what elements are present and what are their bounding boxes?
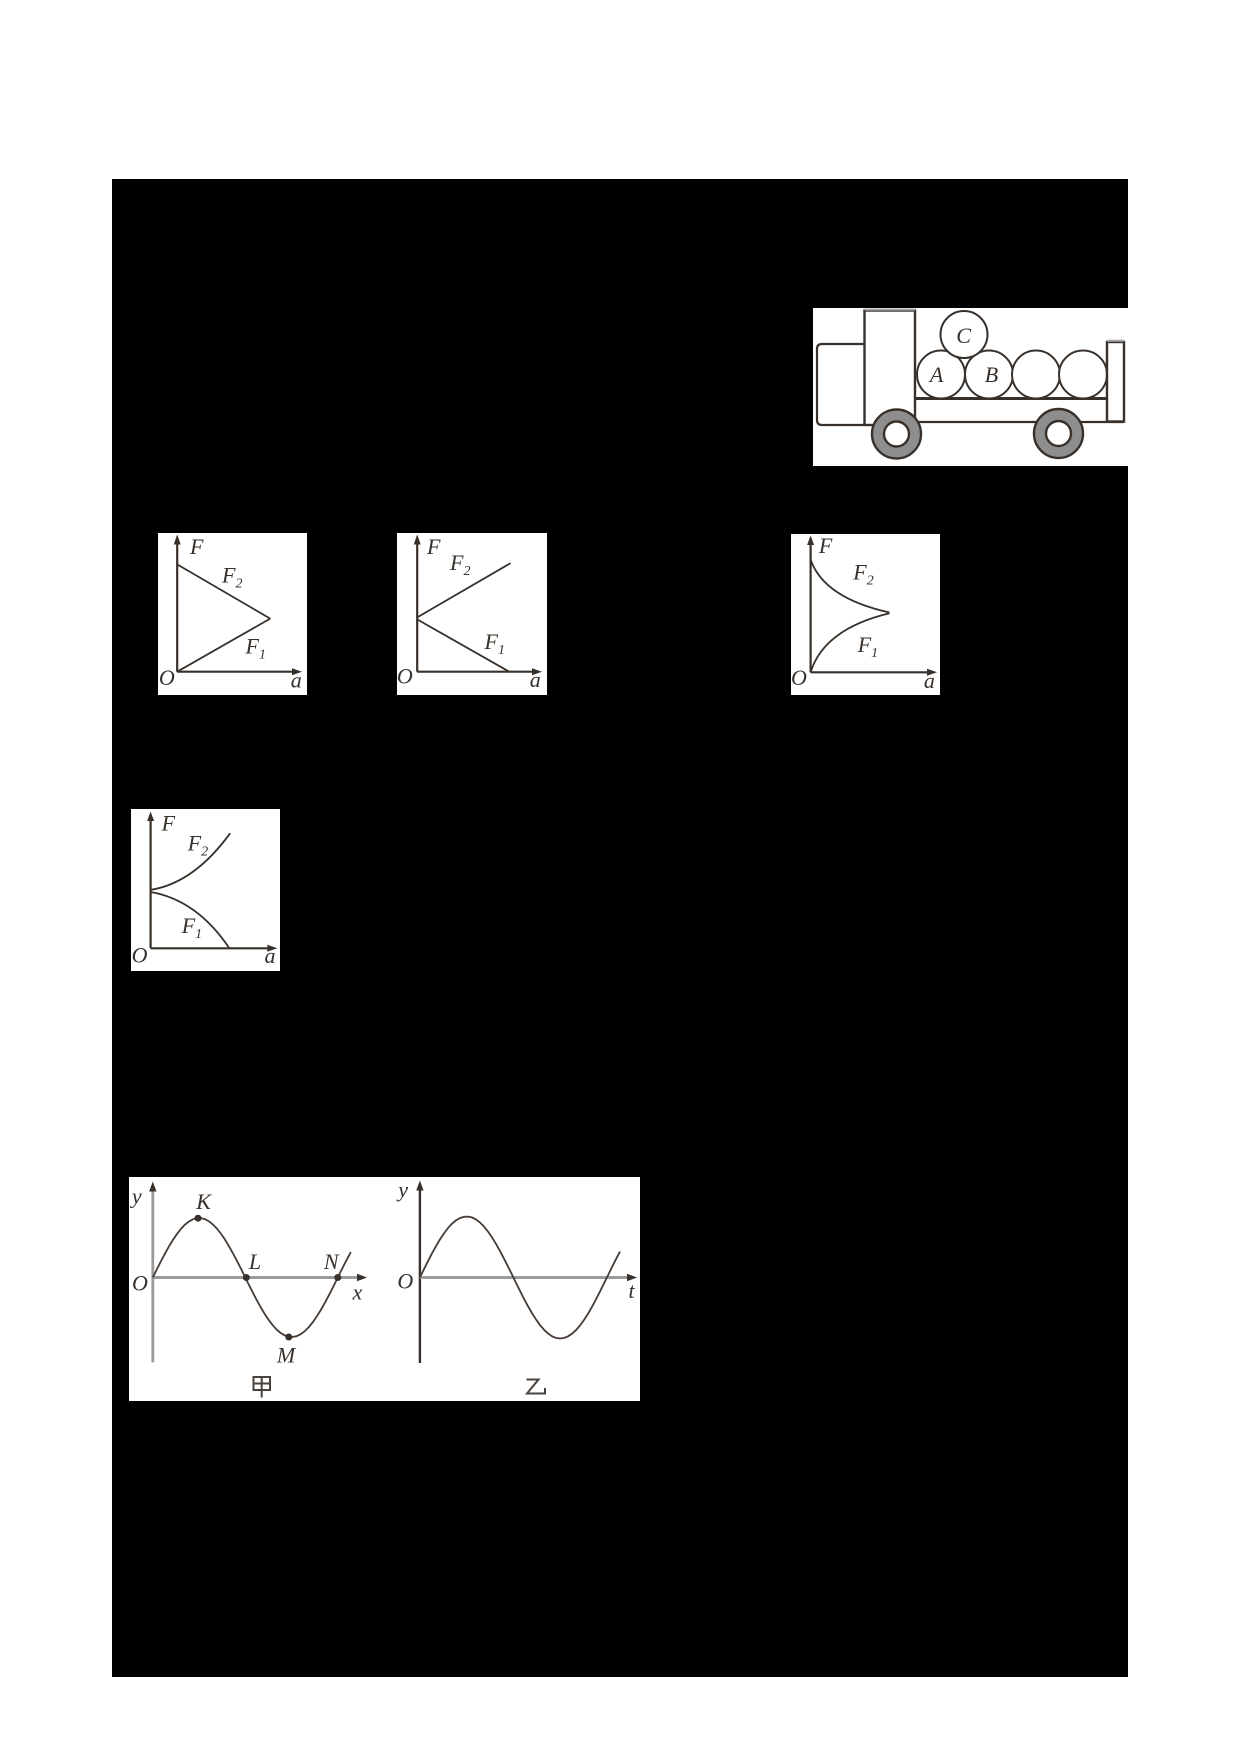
svg-text:K: K — [195, 1189, 212, 1214]
yi x axis (gray) — [420, 1276, 630, 1279]
svg-text:C: C — [956, 323, 971, 348]
jia sine wave — [153, 1218, 351, 1337]
page black body block — [112, 179, 1128, 1677]
svg-text:F1: F1 — [181, 913, 202, 942]
yi x axis arrowhead — [627, 1274, 637, 1281]
svg-text:a: a — [291, 668, 302, 693]
svg-text:O: O — [791, 665, 807, 690]
svg-text:F: F — [818, 534, 833, 558]
svg-text:F2: F2 — [221, 563, 242, 592]
svg-text:y: y — [130, 1184, 142, 1209]
y axis — [811, 543, 930, 673]
svg-text:F2: F2 — [449, 550, 470, 579]
svg-text:a: a — [924, 668, 935, 693]
jia caption glyph — [254, 1377, 271, 1398]
svg-text:B: B — [985, 362, 998, 387]
svg-text:O: O — [132, 943, 148, 968]
line F1 — [177, 619, 270, 672]
svg-text:a: a — [530, 667, 541, 692]
truck cab back panel — [865, 310, 916, 425]
FIGURE: graph A (F vs a, triangle) — [158, 533, 307, 695]
y axis — [417, 542, 534, 672]
point K — [195, 1215, 202, 1222]
truck cab front box — [817, 344, 865, 425]
yi y axis arrowhead — [416, 1181, 423, 1191]
x axis arrowhead — [292, 668, 302, 675]
svg-text:A: A — [928, 362, 944, 387]
point M — [285, 1334, 292, 1341]
y axis arrowhead — [414, 535, 421, 545]
svg-text:N: N — [323, 1249, 340, 1274]
svg-text:F: F — [161, 811, 176, 836]
line F2 — [417, 563, 510, 617]
svg-text:F: F — [426, 534, 441, 559]
cylinder 3 (unlabeled) — [1012, 351, 1060, 399]
truck bed bottom line — [915, 421, 1124, 423]
svg-text:F1: F1 — [857, 632, 878, 661]
svg-text:y: y — [396, 1177, 408, 1202]
x axis arrowhead — [927, 669, 937, 676]
svg-text:x: x — [352, 1280, 363, 1305]
front wheel — [872, 410, 921, 459]
svg-text:O: O — [397, 1269, 413, 1294]
curve F1 — [811, 613, 890, 672]
y axis — [177, 542, 294, 672]
svg-text:F: F — [189, 534, 204, 559]
truck bed surface — [915, 397, 1109, 400]
point L — [243, 1274, 250, 1281]
rear wheel — [1034, 409, 1083, 458]
cylinder C on top — [941, 311, 988, 358]
jia y axis (gray) — [151, 1188, 154, 1362]
curve F2 — [151, 833, 231, 890]
svg-text:F1: F1 — [484, 629, 505, 658]
svg-text:F1: F1 — [245, 634, 266, 663]
FIGURE: graph C (F vs a, cusp curves) — [791, 534, 940, 695]
svg-text:O: O — [397, 664, 413, 689]
jia x axis (gray) — [153, 1276, 360, 1279]
curve F1 — [151, 892, 230, 948]
jia x axis arrowhead — [357, 1274, 367, 1281]
yi caption glyph — [527, 1380, 546, 1394]
yi sine wave — [420, 1217, 620, 1339]
cylinder 4 (unlabeled) — [1059, 351, 1107, 399]
FIGURE: wave graphs jia & yi — [129, 1177, 640, 1401]
svg-text:t: t — [628, 1278, 635, 1303]
yi y axis (dark) — [419, 1187, 421, 1363]
x axis arrowhead — [532, 668, 542, 675]
FIGURE: graph D (F vs a, diverging curves) — [131, 809, 280, 971]
x axis arrowhead — [267, 945, 277, 952]
curve F2 — [811, 560, 890, 613]
y axis — [151, 819, 270, 949]
cylinder B — [965, 351, 1013, 399]
y axis arrowhead — [174, 535, 181, 545]
svg-text:L: L — [248, 1249, 261, 1274]
y axis arrowhead — [807, 536, 814, 546]
svg-text:a: a — [265, 943, 276, 968]
point N — [334, 1274, 341, 1281]
jia y axis arrowhead — [149, 1182, 156, 1192]
tailgate — [1107, 341, 1124, 422]
svg-text:O: O — [132, 1271, 148, 1296]
line F1 — [417, 619, 509, 671]
y axis arrowhead — [147, 812, 154, 822]
svg-text:F2: F2 — [852, 560, 873, 589]
FIGURE: truck with cylinders — [813, 308, 1128, 466]
cylinder A — [917, 351, 965, 399]
svg-text:M: M — [276, 1343, 297, 1368]
svg-text:F2: F2 — [187, 831, 208, 860]
line F2 — [177, 564, 270, 618]
svg-text:O: O — [159, 665, 175, 690]
FIGURE: graph B (F vs a, diverging lines) — [397, 533, 547, 695]
